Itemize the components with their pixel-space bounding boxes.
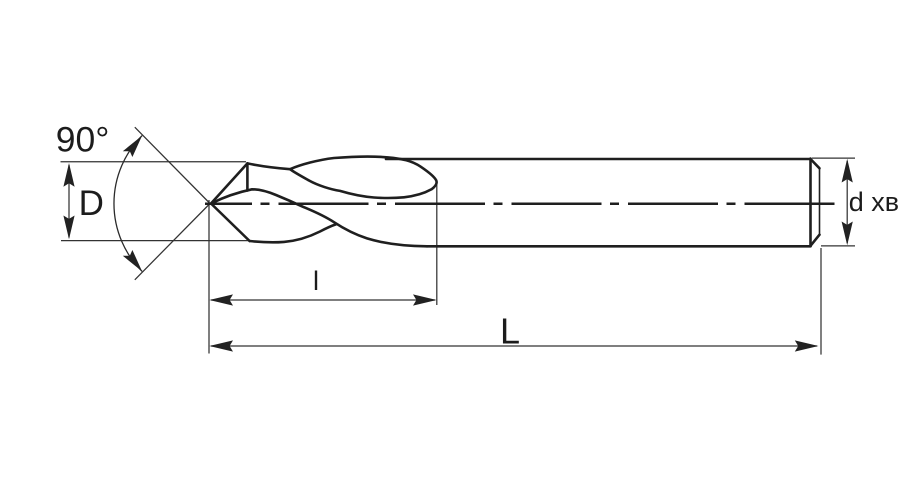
svg-text:90°: 90° bbox=[56, 119, 110, 159]
dimension line D bbox=[68, 165, 70, 238]
arrowhead l left bbox=[209, 294, 233, 305]
arrowhead l right bbox=[413, 294, 437, 305]
dimension line l bbox=[211, 299, 435, 301]
extension line bottom of d xb bbox=[821, 245, 855, 247]
centerline (dash-dot axis) bbox=[205, 203, 835, 206]
lower cutting edge bbox=[211, 204, 250, 242]
svg-text:d хв: d хв bbox=[849, 187, 899, 217]
flute spiral edge from tip crossing the axis bbox=[211, 189, 427, 246]
arrowhead D top bbox=[63, 163, 74, 187]
svg-text:l: l bbox=[313, 266, 319, 296]
flank top edge to flute junction bbox=[247, 163, 290, 169]
arrowhead D bottom bbox=[63, 216, 74, 240]
upper cutting edge bbox=[211, 163, 247, 203]
svg-text:L: L bbox=[500, 311, 520, 352]
chamfer top diagonal bbox=[811, 159, 820, 168]
angle arc 90 degrees bbox=[114, 136, 142, 272]
extension line vertical right for l (from flute end) bbox=[436, 180, 438, 305]
arrowhead L left bbox=[209, 340, 233, 351]
extension line bottom of D bbox=[61, 240, 250, 242]
angle leg upper bbox=[135, 127, 210, 203]
lower flute bottom and second flute edge bbox=[250, 224, 336, 242]
shank bottom line bbox=[427, 245, 811, 248]
chamfer end vertical bbox=[819, 168, 821, 234]
arc arrowhead top bbox=[123, 136, 142, 157]
flute opening (leaf shape) bbox=[290, 157, 437, 198]
angle leg lower bbox=[135, 204, 210, 280]
chamfer bottom diagonal bbox=[811, 235, 820, 246]
drill outline group bbox=[211, 157, 820, 247]
arrowhead d xb top bbox=[842, 159, 853, 183]
extension line vertical left (from drill tip) for l and L bbox=[208, 200, 210, 354]
extension line top of d xb bbox=[812, 157, 855, 159]
arrowhead d xb bottom bbox=[842, 222, 853, 246]
corner flank vertical bbox=[246, 163, 249, 190]
svg-text:D: D bbox=[79, 184, 104, 223]
arrowhead L right bbox=[795, 340, 819, 351]
shank end face bbox=[809, 159, 812, 247]
extension line top of D bbox=[61, 161, 247, 163]
extension line vertical right for L (from shank end) bbox=[820, 248, 822, 355]
shank top line bbox=[386, 158, 811, 161]
arc arrowhead bottom bbox=[123, 250, 142, 271]
dimension line d xb bbox=[846, 161, 848, 243]
dimension line L bbox=[211, 345, 817, 347]
